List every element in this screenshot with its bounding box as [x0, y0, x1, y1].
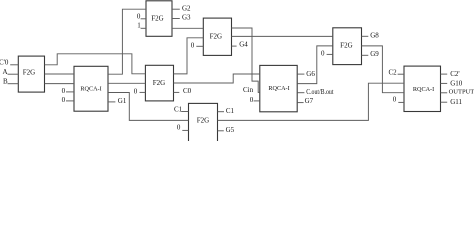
wire U6.out3 G5 stub: [218, 130, 224, 132]
svg-text:C2: C2: [389, 68, 398, 76]
svg-text:G11: G11: [450, 98, 462, 106]
wire U3.out3 to U5.in1: [172, 27, 203, 29]
wire U3.out1 G2 stub: [172, 8, 180, 10]
svg-text:0: 0: [191, 41, 195, 49]
svg-text:G4: G4: [239, 41, 248, 49]
wire U4.out3 C0 stub: [174, 91, 180, 93]
svg-text:F2G: F2G: [210, 33, 222, 41]
svg-text:G9: G9: [370, 50, 379, 58]
svg-text:C2': C2': [450, 70, 459, 78]
svg-text:C1: C1: [226, 107, 235, 115]
gate F2G U5 upper (box): [203, 18, 231, 55]
svg-text:0: 0: [177, 124, 181, 132]
svg-text:C'0: C'0: [0, 58, 9, 66]
wire U8.out2 down to U9.in3: [362, 46, 405, 93]
wire U6.out2 long riser up to U9.in2: [218, 83, 405, 120]
wire U2.out3 down to U6.in2: [108, 93, 189, 121]
wire U4.in3 const 0 stub: [140, 91, 146, 93]
wire U5.in3 const 0 stub: [196, 45, 203, 47]
wire U7.out2 riser up to U8.in2: [297, 46, 333, 84]
svg-text:0: 0: [250, 96, 254, 104]
svg-text:0: 0: [62, 87, 66, 95]
wire U3.in3 const 1 stub: [141, 27, 146, 29]
svg-text:RQCA-I: RQCA-I: [268, 85, 289, 92]
gate RQCA-I U9 (box): [404, 66, 441, 111]
wire U1.out2 to U2.in1: [45, 73, 75, 75]
wire U3.out2 G3 stub: [172, 18, 180, 20]
svg-text:G5: G5: [226, 126, 235, 134]
wire input C2 stub: [398, 73, 404, 75]
svg-text:G7: G7: [305, 97, 314, 105]
wire U9.out2 G10 stub: [441, 82, 448, 84]
svg-text:B: B: [3, 78, 8, 86]
gate F2G U4 middle (box): [145, 65, 173, 101]
svg-text:0: 0: [137, 12, 141, 20]
wire U7.out4 G7 stub: [297, 102, 303, 104]
wire U1.out3 to U2.in2: [45, 83, 75, 85]
wire U7.out1 G6 stub: [297, 73, 304, 75]
wire U9.out4 G11 stub: [441, 101, 448, 103]
wire U2.in3 const 0 stub: [66, 91, 74, 93]
svg-text:G1: G1: [118, 97, 127, 105]
wire U1.out1 stepped over to U4.in1: [45, 54, 146, 74]
gate F2G U3 top (box): [146, 1, 172, 37]
wire U2.in4 const 0 stub: [66, 100, 74, 102]
svg-text:0: 0: [321, 50, 325, 58]
svg-text:C0: C0: [183, 87, 192, 95]
svg-text:F2G: F2G: [340, 42, 352, 50]
svg-text:F2G: F2G: [23, 69, 35, 77]
svg-text:1: 1: [137, 22, 141, 30]
wire U9.out1 C2' stub: [441, 73, 448, 75]
svg-text:A: A: [3, 68, 8, 76]
svg-text:G6: G6: [306, 70, 315, 78]
wire U8.out1 G8 stub: [362, 35, 369, 37]
gate F2G U8 (box): [333, 28, 362, 65]
wire U5.out1 down to U7.in2 Cin: [231, 28, 259, 92]
svg-text:F2G: F2G: [197, 116, 209, 124]
wire U8.in3 const 0 stub: [327, 53, 333, 55]
wire U8.out3 G9 stub: [362, 54, 369, 56]
svg-text:F2G: F2G: [153, 79, 165, 87]
wire input C1 stub: [181, 111, 188, 113]
svg-text:RQCA-I: RQCA-I: [413, 86, 434, 93]
gate F2G U6 bottom (box): [189, 103, 218, 142]
svg-text:Cin: Cin: [243, 86, 254, 94]
svg-text:OUTPUT: OUTPUT: [449, 89, 474, 96]
svg-text:0: 0: [134, 88, 138, 96]
gate F2G U1 (box): [18, 56, 44, 92]
wire U5.out2 long to U8.in1: [231, 35, 332, 37]
svg-text:0: 0: [393, 95, 397, 103]
wire input B stub: [8, 83, 19, 85]
gate RQCA-I U7 (box): [260, 65, 297, 111]
wire input C'0 stub: [10, 64, 18, 66]
wire U4.out1 riser up to U5.in2: [174, 38, 204, 74]
wire U5.out3 G4 stub: [231, 45, 236, 47]
wire U2.out4 G1 stub: [108, 101, 115, 103]
svg-text:C1: C1: [174, 105, 183, 113]
svg-text:0: 0: [62, 96, 66, 104]
svg-text:F2G: F2G: [151, 15, 163, 23]
svg-text:G2: G2: [182, 4, 191, 12]
wire U9.out3 OUTPUT stub: [441, 92, 448, 94]
svg-text:G10: G10: [450, 79, 463, 87]
wire U2.out2 to U4.in2: [108, 82, 145, 84]
wire input A stub: [8, 73, 19, 75]
wire U3.in2 const 0 stub: [141, 18, 146, 20]
wire U6.in3 const 0 stub: [182, 129, 188, 131]
wire U9.in4 const 0 stub: [398, 101, 404, 103]
svg-text:RQCA-I: RQCA-I: [80, 85, 101, 92]
wire U7.out3 C.out/B.out stub: [297, 92, 304, 94]
wire U6.out1 C1 stub: [218, 111, 225, 113]
gate RQCA-I U2 (box): [74, 66, 108, 111]
svg-text:G3: G3: [182, 14, 191, 22]
svg-text:G8: G8: [370, 32, 379, 40]
wire U4.out2 stepped up to U7.in1: [174, 74, 260, 83]
svg-text:C.out/B.out: C.out/B.out: [306, 88, 333, 96]
wire U2.out1 riser up to U3.in1: [108, 9, 146, 74]
wire U7.in3 const 0 stub: [254, 100, 260, 102]
